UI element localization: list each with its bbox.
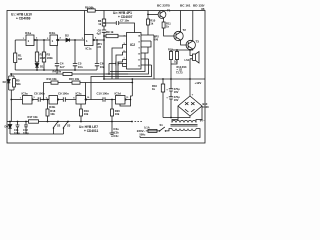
svg-text:1k: 1k: [166, 25, 169, 29]
wire T2 emitter to T3 base: [181, 40, 188, 45]
node osc junction dots: [36, 39, 76, 41]
resistor R15: [69, 77, 80, 84]
IC U2 left pins: [123, 45, 127, 67]
capacitor C5: [73, 62, 83, 69]
svg-text:IC3a: IC3a: [22, 91, 28, 95]
switch S1: [159, 123, 167, 132]
svg-text:4n7: 4n7: [60, 65, 65, 69]
switch S3: [63, 122, 71, 135]
node dots bottom bus: [9, 121, 133, 123]
wire C5 branch: [74, 40, 76, 70]
wire T2 collector: [180, 11, 182, 33]
border frame: [7, 11, 205, 144]
wire T1 collector to frame: [163, 10, 165, 13]
svg-text:D4: D4: [5, 125, 9, 129]
svg-text:R12: R12: [168, 49, 173, 52]
label U3 parts text: [79, 125, 98, 133]
svg-text:LS1: LS1: [185, 58, 190, 62]
transistor T1: [158, 9, 171, 19]
resistor R19: [80, 109, 90, 116]
svg-text:IC1a: IC1a: [25, 31, 31, 35]
transformer TR1 core: [171, 125, 198, 126]
node dots on y70: [36, 69, 76, 71]
wire R11 to T2 base: [164, 28, 176, 36]
svg-text:R15 10k: R15 10k: [69, 77, 80, 81]
svg-text:10: 10: [138, 54, 141, 56]
svg-text:R17 10k: R17 10k: [28, 115, 39, 119]
wire x148 supply branch with R10: [147, 11, 149, 36]
svg-text:50Hz: 50Hz: [140, 134, 147, 137]
svg-text:3: 3: [33, 97, 35, 99]
label transistor equiv list: [176, 66, 187, 75]
svg-text:S1: S1: [160, 123, 164, 127]
wire bottom bus of oscillator y70: [15, 69, 97, 71]
label IC3 sections list: [114, 128, 120, 138]
svg-text:R9 1k: R9 1k: [106, 30, 114, 34]
wire IC2 left pin drops: [104, 40, 123, 79]
node dots minus rail: [170, 117, 172, 119]
svg-text:D2: D2: [65, 34, 69, 38]
svg-text:9: 9: [139, 48, 141, 50]
wire primary right return: [140, 129, 200, 138]
resistor R8 in top frame: [85, 5, 95, 12]
resistor R17 in series bottom bus: [28, 115, 39, 123]
wire C6 branch: [96, 40, 98, 70]
wire IC3d bottom loop: [120, 100, 131, 107]
resistor R1: [14, 53, 23, 63]
svg-text:1: 1: [86, 39, 88, 43]
wire C7 link: [104, 23, 135, 33]
svg-text:+12V: +12V: [195, 81, 202, 85]
wire ground line y134: [10, 133, 64, 135]
capacitor C10: [97, 91, 110, 101]
wire bridge minus down: [163, 116, 190, 118]
svg-text:R4 10k: R4 10k: [53, 70, 62, 74]
svg-text:16V: 16V: [174, 90, 179, 94]
fuse F1: [144, 125, 160, 132]
wire bridge AC right: [196, 106, 202, 123]
wire R18 drop: [47, 100, 49, 122]
wire feedback riser: [44, 83, 86, 100]
label MP2: [154, 35, 160, 42]
speaker LS1: [185, 50, 200, 79]
label U1 parts text: [11, 13, 32, 21]
capacitor C6: [95, 62, 105, 69]
label +12V arrow: [195, 81, 202, 85]
svg-text:R14 10k: R14 10k: [47, 77, 58, 81]
node dot at IC1c out: [96, 39, 98, 41]
svg-text:0V6: 0V6: [154, 38, 159, 42]
svg-text:100µ: 100µ: [14, 131, 20, 135]
wire T1 emitter down: [163, 18, 165, 22]
bridge rectifier B1: [178, 93, 209, 117]
node dots gate row drops: [47, 99, 113, 101]
wire T3 collector: [192, 11, 194, 42]
resistor R11: [162, 22, 171, 29]
node dot x11.3: [10, 73, 12, 100]
svg-text:C10 100n: C10 100n: [97, 91, 110, 95]
IC U2 right pins: [141, 35, 154, 65]
ground bar under R20: [110, 133, 115, 136]
svg-text:10k: 10k: [50, 112, 55, 116]
label MP1: [97, 42, 103, 49]
label transistor types top right: [157, 4, 205, 12]
svg-text:IC1c: IC1c: [86, 47, 92, 51]
svg-text:9V~: 9V~: [200, 118, 205, 122]
svg-text:56k: 56k: [16, 82, 21, 86]
svg-text:S2: S2: [57, 124, 61, 128]
svg-text:16V: 16V: [174, 98, 179, 102]
wire R1 branch: [14, 40, 16, 70]
svg-text:4µ7: 4µ7: [96, 32, 101, 36]
resistor R5: [13, 79, 22, 88]
switch S2: [53, 122, 61, 135]
capacitor C8: [34, 91, 45, 101]
label 230V: [137, 129, 146, 136]
diode D1: [35, 64, 44, 70]
capacitor C7: [116, 19, 129, 26]
svg-text:4: 4: [60, 37, 62, 40]
wire T3 emitter: [171, 49, 193, 52]
wire C4 branch: [56, 46, 58, 71]
resistor R10: [147, 19, 156, 26]
gate IC1c: [85, 35, 95, 51]
wire left column x11.3: [9, 74, 14, 122]
svg-text:10: 10: [87, 97, 90, 99]
svg-text:IC1b: IC1b: [49, 31, 55, 35]
svg-text:S3: S3: [67, 124, 71, 128]
wire bridge AC left: [172, 106, 178, 123]
svg-text:1: 1: [52, 39, 54, 43]
svg-text:1M: 1M: [18, 57, 23, 61]
resistor R16: [152, 84, 165, 92]
svg-text:C800: C800: [203, 105, 210, 109]
node dot T1 base tap: [147, 14, 149, 16]
wire R9 into IC2: [104, 36, 127, 40]
resistor R14: [47, 77, 59, 84]
node dots T3 emitter: [176, 49, 191, 51]
transistor T3: [186, 40, 199, 50]
svg-text:100k: 100k: [47, 56, 54, 60]
svg-text:2: 2: [36, 38, 38, 40]
capacitor C11 electrolytic: [14, 122, 20, 136]
transistor T2: [174, 28, 186, 41]
svg-text:10n: 10n: [78, 65, 83, 69]
resistor R3: [42, 52, 53, 62]
svg-text:8: 8: [139, 42, 141, 44]
wire R12 R13 to rail: [171, 60, 177, 80]
svg-text:1k: 1k: [150, 22, 153, 26]
wire R3 branch: [43, 40, 45, 70]
svg-text:13: 13: [138, 66, 141, 68]
wire R2 branch: [36, 40, 38, 70]
capacitor C9: [58, 91, 69, 101]
transformer TR1 secondary: [172, 121, 196, 123]
svg-text:C7 10n: C7 10n: [120, 19, 129, 23]
svg-text:+: +: [166, 88, 168, 92]
gate IC3a: [22, 91, 34, 104]
capacitor C14 electrolytic: [166, 95, 180, 102]
gate IC1a: [25, 31, 35, 46]
node dot C7 junction: [103, 22, 105, 41]
node dots feedback: [43, 99, 87, 101]
wire long rail y79: [104, 78, 205, 80]
wire power column x171: [170, 79, 172, 118]
wire supply column x104: [103, 11, 105, 80]
svg-text:IC3b: IC3b: [49, 105, 55, 109]
capacitor C15 on pin 7: [108, 62, 126, 75]
svg-text:IC3c: IC3c: [76, 91, 82, 95]
diode D3: [3, 80, 11, 85]
svg-text:IC2: IC2: [130, 43, 135, 47]
svg-text:+: +: [166, 96, 168, 100]
svg-text:+ CD4011: + CD4011: [84, 129, 98, 133]
resistor R12: [168, 49, 173, 60]
wire power column x163: [162, 79, 164, 118]
svg-text:C9 100n: C9 100n: [58, 91, 69, 95]
svg-text:T2,T3: T2,T3: [176, 71, 183, 74]
svg-text:1k: 1k: [98, 22, 101, 26]
svg-text:11: 11: [126, 97, 129, 99]
gate IC1b: [49, 31, 59, 46]
svg-text:100µ: 100µ: [23, 131, 29, 135]
capacitor C4: [55, 62, 65, 69]
svg-text:R8 56k: R8 56k: [85, 5, 94, 9]
wire R19 drop: [80, 104, 82, 122]
wire oscillator main y40: [15, 39, 104, 41]
label 9V secondary: [200, 118, 205, 122]
svg-text:10k: 10k: [84, 112, 89, 116]
capacitor C12 electrolytic: [23, 122, 29, 136]
wire rail y82: [86, 82, 133, 84]
transformer TR1 primary: [172, 129, 196, 131]
resistor R18: [46, 109, 56, 116]
wire R20 drop: [111, 100, 113, 134]
gate IC3d: [115, 92, 127, 104]
gate IC3c: [76, 91, 87, 104]
resistor R6: [98, 19, 106, 26]
svg-text:36: 36: [201, 7, 205, 11]
svg-text:T2: T2: [183, 28, 187, 32]
svg-text:T1: T1: [167, 9, 171, 13]
capacitor C6: [96, 29, 106, 36]
svg-text:D1: D1: [40, 65, 44, 69]
svg-text:10k: 10k: [115, 112, 120, 116]
label U2 parts text: [113, 11, 133, 19]
wire dashed stub: [135, 121, 143, 123]
svg-text:1: 1: [28, 39, 30, 43]
wire gate row y99.5: [11, 79, 132, 100]
svg-text:BC 161: BC 161: [180, 4, 191, 8]
svg-text:IC3c: IC3c: [114, 135, 120, 138]
svg-text:1V2: 1V2: [97, 45, 102, 49]
wire ground bus y74: [10, 70, 128, 74]
svg-text:230V~: 230V~: [137, 129, 146, 133]
wire supply tap x84.5: [84, 11, 86, 35]
wire T1 base: [148, 13, 158, 15]
svg-text:T3: T3: [196, 40, 200, 44]
node dots rail: [103, 78, 191, 80]
resistor R20: [111, 109, 121, 116]
svg-text:BC 237B: BC 237B: [157, 4, 170, 8]
IC U2 pin numbers: [124, 35, 142, 68]
capacitor C13 electrolytic: [166, 87, 180, 94]
svg-text:11: 11: [138, 60, 141, 62]
resistor R4 in bus: [53, 70, 73, 76]
node dots IC3d out: [130, 78, 134, 100]
svg-text:14: 14: [138, 35, 141, 38]
diode D4 bottom left: [5, 122, 12, 135]
svg-text:1k: 1k: [152, 87, 155, 91]
svg-text:IC3d: IC3d: [115, 92, 121, 96]
wire bottom bus y121.5: [7, 121, 132, 123]
IC U2 DIP body: [127, 33, 142, 70]
svg-text:+: +: [192, 93, 194, 97]
wire bridge plus up: [189, 79, 191, 96]
resistor R13: [174, 52, 179, 64]
wire IC2 loop right 1: [91, 35, 154, 100]
diode D2: [65, 34, 70, 42]
svg-text:D3: D3: [3, 81, 7, 84]
resistor R2: [35, 52, 45, 62]
resistor R9: [106, 30, 118, 38]
gate IC3b: [49, 96, 59, 109]
svg-text:+ CD4069: + CD4069: [16, 17, 31, 21]
wire primary left: [166, 129, 173, 131]
